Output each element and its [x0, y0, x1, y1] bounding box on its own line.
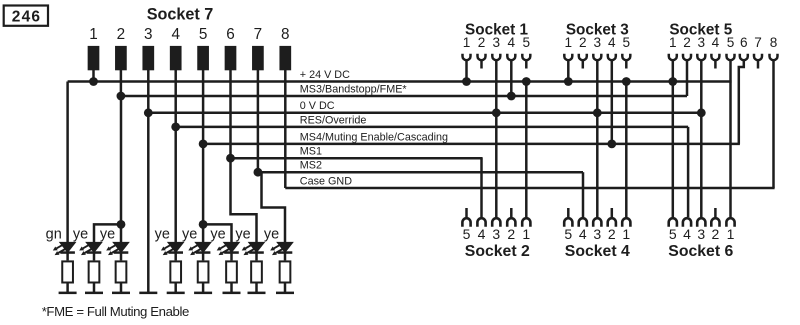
wire RES drop pin4 to LED ye4 [174, 127, 177, 243]
svg-text:5: 5 [523, 35, 531, 50]
label LED colour ye [100, 226, 115, 242]
wire LED D8 cathode lead [284, 253, 287, 260]
Socket 1 pin 4 number label [508, 35, 516, 50]
svg-text:ye: ye [155, 226, 170, 242]
Socket 3 pin 5 number label [623, 35, 631, 50]
wire +24V left drop to green LED [66, 82, 69, 243]
node +24V socket1 pin1 [462, 77, 471, 86]
node 0V socket1/2 pin3 [492, 108, 501, 117]
connector Socket 3 title [566, 21, 629, 38]
wire socket7 pin 1 lead down to bus [92, 70, 95, 82]
Socket 5 pin 8 number label [770, 35, 778, 50]
Socket 3 pin 2 number label [579, 35, 587, 50]
wire MS2 step down to LED ye8 [262, 172, 286, 242]
wire resistor R2 lead [93, 284, 96, 293]
Socket 2 pin 1 cup contact [522, 218, 530, 227]
resistor R7 [251, 261, 262, 282]
Socket 1 pin 4 fork contact [507, 54, 515, 61]
wire +24 V DC bus [68, 80, 732, 83]
svg-text:2: 2 [712, 226, 720, 242]
socket 7 pin 4 number label [171, 26, 180, 43]
svg-text:5: 5 [463, 226, 471, 242]
Socket 4 pin 4 cup contact [579, 218, 587, 227]
svg-text:RES/Override: RES/Override [300, 114, 367, 126]
label LED colour ye [264, 226, 279, 242]
svg-text:3: 3 [594, 35, 602, 50]
wire socket7 pin 5 lead down to bus [202, 70, 205, 144]
svg-text:2: 2 [579, 35, 587, 50]
socket 7 pin 3 number label [144, 26, 153, 43]
socket 7 pin 7 number label [254, 26, 263, 43]
terminal bar R6 [223, 292, 241, 295]
wire socket5 pin8 to Case GND end [772, 60, 775, 188]
socket 7 pin 5 contact [197, 46, 209, 70]
wire socket2 pin4 from MS1 end [480, 158, 483, 217]
Socket 4 pin 5 cup contact [564, 218, 572, 227]
Socket 4 pin 3 number label [593, 226, 601, 242]
LED D7 (ye) [242, 243, 264, 256]
wire socket3 pin5 stub nc [625, 60, 628, 69]
Socket 5 pin 8 fork contact [770, 54, 778, 61]
wire socket7 pin 7 lead down to bus [257, 70, 260, 172]
svg-text:5: 5 [623, 35, 631, 50]
connector Socket 7 title [147, 6, 214, 24]
svg-text:4: 4 [712, 35, 720, 50]
Socket 3 pin 2 fork contact [579, 54, 587, 61]
wire socket3 pin2 stub nc [582, 60, 585, 69]
Socket 2 pin 2 cup contact [507, 218, 515, 227]
svg-text:5: 5 [564, 226, 572, 242]
node MS3 socket7 pin2 [117, 92, 126, 101]
socket 7 pin 6 number label [226, 26, 235, 43]
net label MS4/Muting Enable/Cascading [300, 131, 448, 143]
wire socket7 pin 6 lead down to bus [229, 70, 232, 158]
svg-text:ye: ye [100, 226, 115, 242]
wire MS4 drop pin5 to LED ye5 [202, 144, 205, 243]
wire socket6 pin5 from +24V [672, 82, 675, 218]
Socket 4 pin 3 cup contact [593, 218, 601, 227]
wire socket7 pin 8 lead down to bus [284, 70, 287, 188]
node MS3 socket1 pin4 [507, 92, 516, 101]
socket 7 pin 7 contact [252, 46, 264, 70]
Socket 4 pin 2 cup contact [608, 218, 616, 227]
LED D1 (gn) [53, 243, 75, 256]
Socket 6 pin 5 cup contact [669, 218, 677, 227]
Socket 2 pin 4 cup contact [477, 218, 485, 227]
Socket 4 pin 5 number label [564, 226, 572, 242]
svg-text:ye: ye [73, 226, 88, 242]
socket 7 pin 3 contact [142, 46, 154, 70]
svg-text:MS2: MS2 [300, 160, 322, 172]
net label RES/Override [300, 114, 367, 126]
wire socket3 pin3 to 0V [596, 60, 599, 113]
Socket 6 pin 5 number label [669, 226, 677, 242]
svg-text:3: 3 [698, 35, 706, 50]
wire socket1 pin5 stub nc [525, 60, 528, 69]
Socket 5 pin 3 number label [698, 35, 706, 50]
Socket 5 pin 5 fork contact [727, 54, 735, 61]
Socket 5 pin 3 fork contact [697, 54, 705, 61]
net label MS3/Bandstopp/FME* [300, 83, 408, 95]
wire RES/Override bus [176, 126, 688, 129]
node RES socket7 pin4 [171, 123, 180, 132]
svg-text:246: 246 [12, 8, 41, 25]
svg-text:Socket 6: Socket 6 [668, 243, 733, 260]
footnote FME definition [42, 304, 189, 319]
net label Case GND [300, 175, 352, 187]
terminal bar R2 [85, 292, 103, 295]
wire resistor R6 lead [230, 284, 233, 293]
svg-text:1: 1 [89, 26, 98, 43]
Socket 5 pin 7 fork contact [754, 54, 762, 61]
svg-text:4: 4 [579, 226, 587, 242]
wire resistor R5 lead [202, 284, 205, 293]
Socket 1 pin 2 number label [478, 35, 486, 50]
Socket 2 pin 5 cup contact [462, 218, 470, 227]
terminal bar R5 [194, 292, 212, 295]
wire socket2 pin3 from 0V [495, 113, 498, 217]
net label MS2 [300, 160, 322, 172]
Socket 2 pin 3 cup contact [492, 218, 500, 227]
resistor R2 [89, 261, 100, 282]
wire socket7 pin 3 lead down to bus [147, 70, 150, 113]
wire LED D2 cathode lead [93, 253, 96, 260]
wire socket5 pin3 to 0V [700, 60, 703, 113]
wire MS4/Muting Enable/Cascading bus [203, 143, 740, 146]
svg-text:*FME = Full Muting Enable: *FME = Full Muting Enable [42, 304, 189, 319]
LED D4 (ye) [161, 243, 183, 256]
svg-text:1: 1 [522, 226, 530, 242]
svg-text:4: 4 [508, 35, 516, 50]
Socket 2 pin 4 number label [478, 226, 486, 242]
svg-text:2: 2 [608, 226, 616, 242]
wire socket1 pin4 to MS3 [510, 60, 513, 96]
wire socket5 pin6 jog to MS4 end [739, 60, 744, 144]
Socket 2 pin 2 number label [507, 226, 515, 242]
Socket 5 pin 4 fork contact [711, 54, 719, 61]
Socket 5 pin 7 number label [754, 35, 762, 50]
wire socket2 pin2 stub nc [510, 208, 513, 217]
Socket 3 pin 3 number label [594, 35, 602, 50]
wire socket5 pin2 to MS3 end [686, 60, 689, 96]
wire socket6 pin4 from RES end [687, 127, 690, 217]
wire resistor R3 lead [120, 284, 123, 293]
Socket 5 pin 4 number label [712, 35, 720, 50]
Socket 1 pin 1 fork contact [463, 54, 471, 61]
node 0V socket7 pin3 [144, 108, 153, 117]
label LED colour ye [155, 226, 170, 242]
node MS4 socket7 pin5 [199, 140, 208, 149]
connector Socket 1 title [465, 21, 528, 38]
svg-text:3: 3 [493, 35, 501, 50]
Socket 5 pin 5 number label [727, 35, 735, 50]
wire MS1 bus [231, 157, 483, 160]
svg-text:Socket 2: Socket 2 [465, 243, 530, 260]
svg-text:2: 2 [507, 226, 515, 242]
wire LED D7 cathode lead [255, 253, 258, 260]
node MS4 socket3 pin4 [607, 140, 616, 149]
connector Socket 2 title [465, 243, 530, 260]
svg-text:3: 3 [593, 226, 601, 242]
connector Socket 4 title [565, 243, 630, 260]
svg-text:3: 3 [144, 26, 153, 43]
svg-text:ye: ye [264, 226, 279, 242]
svg-text:4: 4 [478, 226, 486, 242]
svg-text:8: 8 [770, 35, 778, 50]
node +24V socket2 pin1 [522, 77, 531, 86]
wire socket5 pin5 / +24V end / socket6 pin1 [729, 60, 732, 217]
Socket 4 pin 4 number label [579, 226, 587, 242]
wire LED D4 cathode lead [174, 253, 177, 260]
Socket 5 pin 2 fork contact [683, 54, 691, 61]
svg-text:4: 4 [171, 26, 180, 43]
wire resistor R1 lead [66, 284, 69, 293]
socket 7 pin 1 contact [88, 46, 100, 70]
wire socket7 pin 2 lead down to bus [120, 70, 123, 96]
resistor R6 [226, 261, 237, 282]
LED D8 (ye) [270, 243, 292, 256]
terminal bar R4 [167, 292, 185, 295]
wire 0 V DC bus [148, 112, 701, 115]
socket 7 pin 2 number label [117, 26, 126, 43]
connector Socket 6 title [668, 243, 733, 260]
terminal bar 0V stub [139, 292, 157, 295]
node junction LED ye2/ye3 [117, 220, 126, 229]
Socket 3 pin 3 fork contact [593, 54, 601, 61]
node 0V socket5/6 pin3 [697, 108, 706, 117]
Socket 5 pin 6 fork contact [740, 54, 748, 61]
Socket 3 pin 1 fork contact [564, 54, 572, 61]
svg-text:4: 4 [683, 226, 691, 242]
Socket 2 pin 3 number label [492, 226, 500, 242]
node MS2 socket7 pin7 [254, 168, 263, 177]
terminal bar R1 [59, 292, 77, 295]
svg-text:MS1: MS1 [300, 146, 322, 158]
svg-text:4: 4 [608, 35, 616, 50]
wire MS1 step down to LED ye7 [231, 158, 257, 242]
Socket 6 pin 2 cup contact [711, 218, 719, 227]
Socket 4 pin 1 cup contact [622, 218, 630, 227]
svg-text:Case GND: Case GND [300, 175, 352, 187]
Socket 1 pin 3 number label [493, 35, 501, 50]
socket 7 pin 8 contact [279, 46, 291, 70]
wire socket4 pin1 from +24V [625, 82, 628, 218]
resistor R4 [170, 261, 181, 282]
Socket 2 pin 1 number label [522, 226, 530, 242]
terminal bar R3 [112, 292, 130, 295]
wire socket5 pin1 to +24V [672, 60, 675, 82]
socket 7 pin 4 contact [170, 46, 182, 70]
svg-text:MS4/Muting Enable/Cascading: MS4/Muting Enable/Cascading [300, 131, 448, 143]
wire LED D1 cathode lead [66, 253, 69, 260]
wire socket6 pin2 stub nc [714, 208, 717, 217]
terminal bar R7 [248, 292, 266, 295]
LED D6 (ye) [217, 243, 239, 256]
wire socket2 pin5 stub nc [465, 208, 468, 217]
svg-text:1: 1 [463, 35, 471, 50]
wire socket6 pin3 from 0V [700, 113, 703, 217]
wire MS3 drop pin2 to LED ye3 [120, 96, 123, 243]
node +24V socket5 pin1/socket6 pin5 [668, 77, 677, 86]
svg-text:gn: gn [46, 226, 62, 242]
net label MS1 [300, 146, 322, 158]
Socket 1 pin 2 fork contact [478, 54, 486, 61]
wire socket2 pin1 from +24V [525, 82, 528, 218]
svg-text:7: 7 [254, 26, 263, 43]
wire socket5 pin7 stub nc [757, 60, 760, 69]
wire resistor R4 lead [174, 284, 177, 293]
svg-text:2: 2 [478, 35, 486, 50]
wire LED D6 cathode lead [230, 253, 233, 260]
Socket 4 pin 2 number label [608, 226, 616, 242]
svg-text:6: 6 [226, 26, 235, 43]
node MS1 socket7 pin6 [226, 154, 235, 163]
socket 7 pin 8 number label [281, 26, 290, 43]
Socket 3 pin 1 number label [565, 35, 573, 50]
node +24V socket3 pin1 [564, 77, 573, 86]
wire socket3 pin4 to MS4 [611, 60, 614, 144]
svg-text:0 V DC: 0 V DC [300, 100, 335, 112]
Socket 5 pin 1 fork contact [669, 54, 677, 61]
label LED colour ye [182, 226, 197, 242]
Socket 6 pin 1 number label [727, 226, 735, 242]
wire resistor R7 lead [255, 284, 258, 293]
Socket 1 pin 5 number label [523, 35, 531, 50]
svg-text:1: 1 [565, 35, 573, 50]
figure number box 246 [4, 6, 48, 26]
svg-text:Socket 4: Socket 4 [565, 243, 630, 260]
wire socket7 pin 4 lead down to bus [174, 70, 177, 127]
net label 0 V DC [300, 100, 335, 112]
Socket 6 pin 3 number label [697, 226, 705, 242]
Socket 6 pin 2 number label [712, 226, 720, 242]
resistor R8 [280, 261, 291, 282]
wire socket4 pin5 stub nc [567, 208, 570, 217]
Socket 1 pin 1 number label [463, 35, 471, 50]
Socket 2 pin 5 number label [463, 226, 471, 242]
Socket 6 pin 4 cup contact [683, 218, 691, 227]
node junction LED ye5/ye6 [199, 220, 208, 229]
node +24V socket4 pin1 [622, 77, 631, 86]
Socket 5 pin 1 number label [669, 35, 677, 50]
label LED colour ye [210, 226, 225, 242]
LED D2 (ye) [79, 243, 101, 256]
wire socket4 pin2 stub nc [611, 208, 614, 217]
wire LED D3 cathode lead [120, 253, 123, 260]
Socket 5 pin 6 number label [740, 35, 748, 50]
LED D5 (ye) [188, 243, 210, 256]
svg-text:3: 3 [492, 226, 500, 242]
wire socket1 pin1 to +24V [465, 60, 468, 82]
label LED colour ye [235, 226, 250, 242]
svg-text:ye: ye [182, 226, 197, 242]
Socket 1 pin 3 fork contact [492, 54, 500, 61]
terminal bar R8 [276, 292, 294, 295]
svg-text:7: 7 [754, 35, 762, 50]
svg-text:MS3/Bandstopp/FME*: MS3/Bandstopp/FME* [300, 83, 408, 95]
wire socket1 pin2 stub nc [480, 60, 483, 69]
wire branch to LED ye2 [94, 224, 121, 242]
socket 7 pin 2 contact [115, 46, 127, 70]
resistor R1 [62, 261, 73, 282]
connector Socket 5 title [669, 21, 732, 38]
svg-text:3: 3 [697, 226, 705, 242]
wire socket5 pin4 stub nc [714, 60, 717, 69]
wire LED D5 cathode lead [202, 253, 205, 260]
svg-text:5: 5 [199, 26, 208, 43]
node 0V socket3/4 pin3 [593, 108, 602, 117]
svg-text:2: 2 [117, 26, 126, 43]
svg-text:2: 2 [683, 35, 691, 50]
svg-text:1: 1 [622, 226, 630, 242]
Socket 6 pin 1 cup contact [726, 218, 734, 227]
node +24V socket7 pin1 [89, 77, 98, 86]
wire MS2 bus [258, 171, 583, 174]
svg-text:5: 5 [669, 226, 677, 242]
wire socket3 pin1 to +24V [567, 60, 570, 82]
Socket 3 pin 5 fork contact [622, 54, 630, 61]
svg-text:8: 8 [281, 26, 290, 43]
Socket 1 pin 5 fork contact [522, 54, 530, 61]
Socket 6 pin 3 cup contact [697, 218, 705, 227]
wire Case GND bus [285, 187, 774, 190]
wire MS3/Bandstopp/FME bus [121, 95, 687, 98]
net label + 24 V DC [300, 69, 350, 81]
LED D3 (ye) [106, 243, 128, 256]
svg-text:5: 5 [727, 35, 735, 50]
svg-text:ye: ye [235, 226, 250, 242]
wire socket4 pin4 from MS2 end [582, 172, 585, 217]
svg-text:1: 1 [669, 35, 677, 50]
socket 7 pin 1 number label [89, 26, 98, 43]
wire socket1 pin3 to 0V [495, 60, 498, 113]
svg-text:6: 6 [740, 35, 748, 50]
wire 0V reference stub [147, 113, 150, 293]
Socket 6 pin 4 number label [683, 226, 691, 242]
label LED colour ye [73, 226, 88, 242]
Socket 3 pin 4 fork contact [608, 54, 616, 61]
wire resistor R8 lead [284, 284, 287, 293]
svg-text:Socket 7: Socket 7 [147, 6, 214, 24]
svg-text:+ 24 V DC: + 24 V DC [300, 69, 350, 81]
Socket 4 pin 1 number label [622, 226, 630, 242]
socket 7 pin 6 contact [225, 46, 237, 70]
svg-text:1: 1 [727, 226, 735, 242]
Socket 5 pin 2 number label [683, 35, 691, 50]
socket 7 pin 5 number label [199, 26, 208, 43]
resistor R5 [198, 261, 209, 282]
resistor R3 [116, 261, 127, 282]
svg-text:ye: ye [210, 226, 225, 242]
wire socket4 pin3 from 0V [596, 113, 599, 217]
wire branch to LED ye6 [203, 224, 231, 242]
Socket 3 pin 4 number label [608, 35, 616, 50]
label LED colour gn [46, 226, 62, 242]
